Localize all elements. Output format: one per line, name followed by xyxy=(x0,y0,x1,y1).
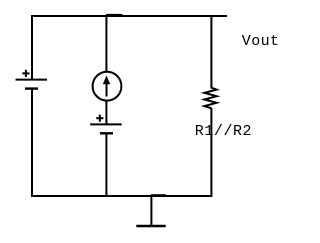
resistor R1//R2 xyxy=(204,86,216,108)
wire ground junction overdraw xyxy=(151,194,166,196)
wire top junction overdraw xyxy=(106,14,122,16)
svg-text:R1//R2: R1//R2 xyxy=(195,123,252,140)
current source I1 xyxy=(93,72,122,101)
wire right rail lower xyxy=(210,108,212,196)
battery V1 xyxy=(16,70,48,89)
wire top rail xyxy=(31,15,227,17)
wire bottom rail xyxy=(31,195,212,197)
battery V2 xyxy=(90,115,122,134)
svg-text:Vout: Vout xyxy=(242,33,280,50)
wire middle rail mid xyxy=(105,101,107,125)
wire middle rail lower xyxy=(105,133,107,196)
ground xyxy=(136,196,165,226)
wire right rail upper xyxy=(210,15,212,88)
wire middle rail upper xyxy=(105,15,107,72)
wire left rail upper xyxy=(31,15,33,79)
wire left rail lower xyxy=(31,89,33,196)
